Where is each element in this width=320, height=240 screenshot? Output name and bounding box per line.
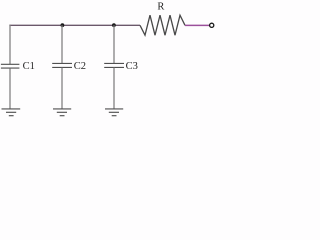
svg-text:C3: C3 [126,61,138,72]
svg-text:C1: C1 [23,61,35,72]
resistor R zigzag [140,15,185,35]
ground under C1 [2,109,21,116]
svg-text:R: R [157,2,164,13]
wire: C1 bottom lead to ground [9,68,11,108]
wire: top horizontal bus from C1 corner to resistor R left terminal [9,24,140,26]
wire: vertical from junction dot down to C3 top plate [113,25,115,63]
wire: resistor right terminal to output pin [185,24,209,26]
wire: left vertical from top bus corner down to C1 top plate [9,25,11,64]
ground under C2 [53,109,71,116]
node: junction dot at C3 branch [112,23,116,27]
svg-text:C2: C2 [74,61,86,72]
wire: C3 bottom lead to ground [113,68,115,109]
output terminal pin (open circle) [210,23,214,27]
ground under C3 [105,109,123,116]
capacitor C2 plates [52,63,72,67]
wire: vertical from junction dot down to C2 top plate [61,25,63,63]
capacitor C3 plates [104,63,124,67]
capacitor C1 plates [1,64,20,68]
node: junction dot at C2 branch [61,23,65,27]
wire: C2 bottom lead to ground [61,68,63,109]
